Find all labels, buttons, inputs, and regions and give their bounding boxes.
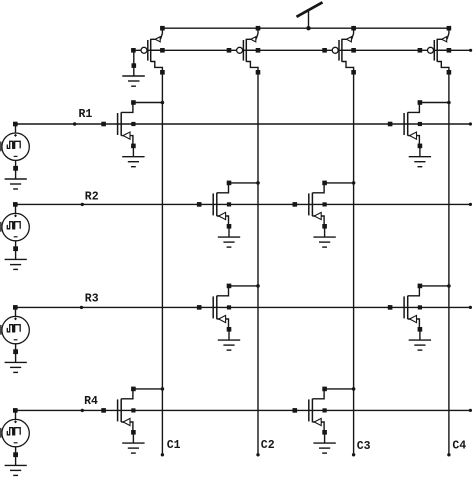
wire row R3 (15, 306, 472, 309)
node label C3 (357, 440, 371, 453)
svg-text:C2: C2 (261, 439, 275, 452)
ground (V1) (5, 179, 27, 189)
ground (M32 source) (218, 340, 240, 350)
svg-text:R4: R4 (84, 395, 98, 408)
svg-text:C4: C4 (452, 439, 466, 452)
nmos M41 (row R4, column C1) (101, 387, 164, 444)
nmos M32 (row R3, column C2) (197, 284, 260, 341)
node label R1 (79, 108, 93, 121)
wire P1 gate to ground (132, 53, 137, 77)
nmos M43 (row R4, column C3) (293, 387, 356, 444)
pmos P4 (column C4 header) (418, 26, 452, 75)
ground (M34 source) (409, 340, 431, 350)
ground (V2) (5, 259, 27, 269)
svg-text:R1: R1 (79, 108, 93, 121)
pulse source V4 (row R4) (0, 408, 29, 465)
node label R2 (85, 190, 99, 203)
wire column C4 (447, 72, 450, 456)
node label C2 (261, 439, 275, 452)
node label C1 (167, 439, 181, 452)
ground (M11 source) (122, 157, 144, 167)
wire row R4 (15, 409, 472, 412)
pmos P2 (column C2 header) (227, 26, 261, 75)
wire VDD top rail (162, 27, 449, 29)
ground (V3) (5, 362, 27, 372)
ground (M22 source) (218, 237, 240, 247)
pmos P1 (column C1 header) (131, 26, 165, 75)
ground (M41 source) (122, 443, 144, 453)
nmos M22 (row R2, column C2) (197, 181, 260, 238)
node label R3 (85, 293, 99, 306)
ground (V4) (5, 465, 27, 475)
nmos M11 (row R1, column C1) (101, 100, 164, 157)
pmos P3 (column C3 header) (322, 26, 356, 75)
node label C4 (452, 439, 466, 452)
ground (M23 source) (313, 237, 335, 247)
nmos M14 (row R1, column C4) (388, 100, 451, 157)
wire row R2 (15, 203, 472, 206)
svg-text:C1: C1 (167, 439, 181, 452)
wire row R1 (15, 122, 472, 125)
pulse source V2 (row R2) (0, 202, 29, 259)
ground (P1 gate) (122, 76, 145, 86)
ground (M43 source) (313, 443, 335, 453)
wire PMOS gate rail (134, 49, 472, 52)
svg-text:R3: R3 (85, 293, 99, 306)
svg-text:C3: C3 (357, 440, 371, 453)
pulse source V1 (row R1) (0, 122, 29, 179)
junction on row R1 (73, 122, 76, 125)
pulse source V3 (row R3) (0, 305, 29, 362)
power supply VDD symbol (297, 2, 323, 30)
junction on row R3 (80, 306, 83, 309)
ground (M14 source) (409, 157, 431, 167)
junction on row R2 (81, 203, 84, 206)
wire column C1 (161, 72, 164, 456)
wire column C2 (256, 72, 259, 456)
nmos M23 (row R2, column C3) (293, 181, 356, 238)
wire column C3 (352, 72, 355, 456)
node label R4 (84, 395, 98, 408)
nmos M34 (row R3, column C4) (388, 284, 451, 341)
svg-text:R2: R2 (85, 190, 99, 203)
junction on row R4 (81, 409, 84, 412)
